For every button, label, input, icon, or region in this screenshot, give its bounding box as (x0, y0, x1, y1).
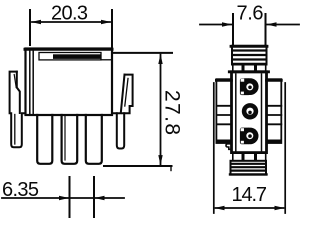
svg-text:7.6: 7.6 (237, 3, 264, 25)
svg-text:20.3: 20.3 (51, 3, 88, 25)
svg-text:6.35: 6.35 (2, 179, 39, 201)
svg-text:27.8: 27.8 (161, 90, 184, 135)
svg-text:14.7: 14.7 (232, 184, 268, 206)
